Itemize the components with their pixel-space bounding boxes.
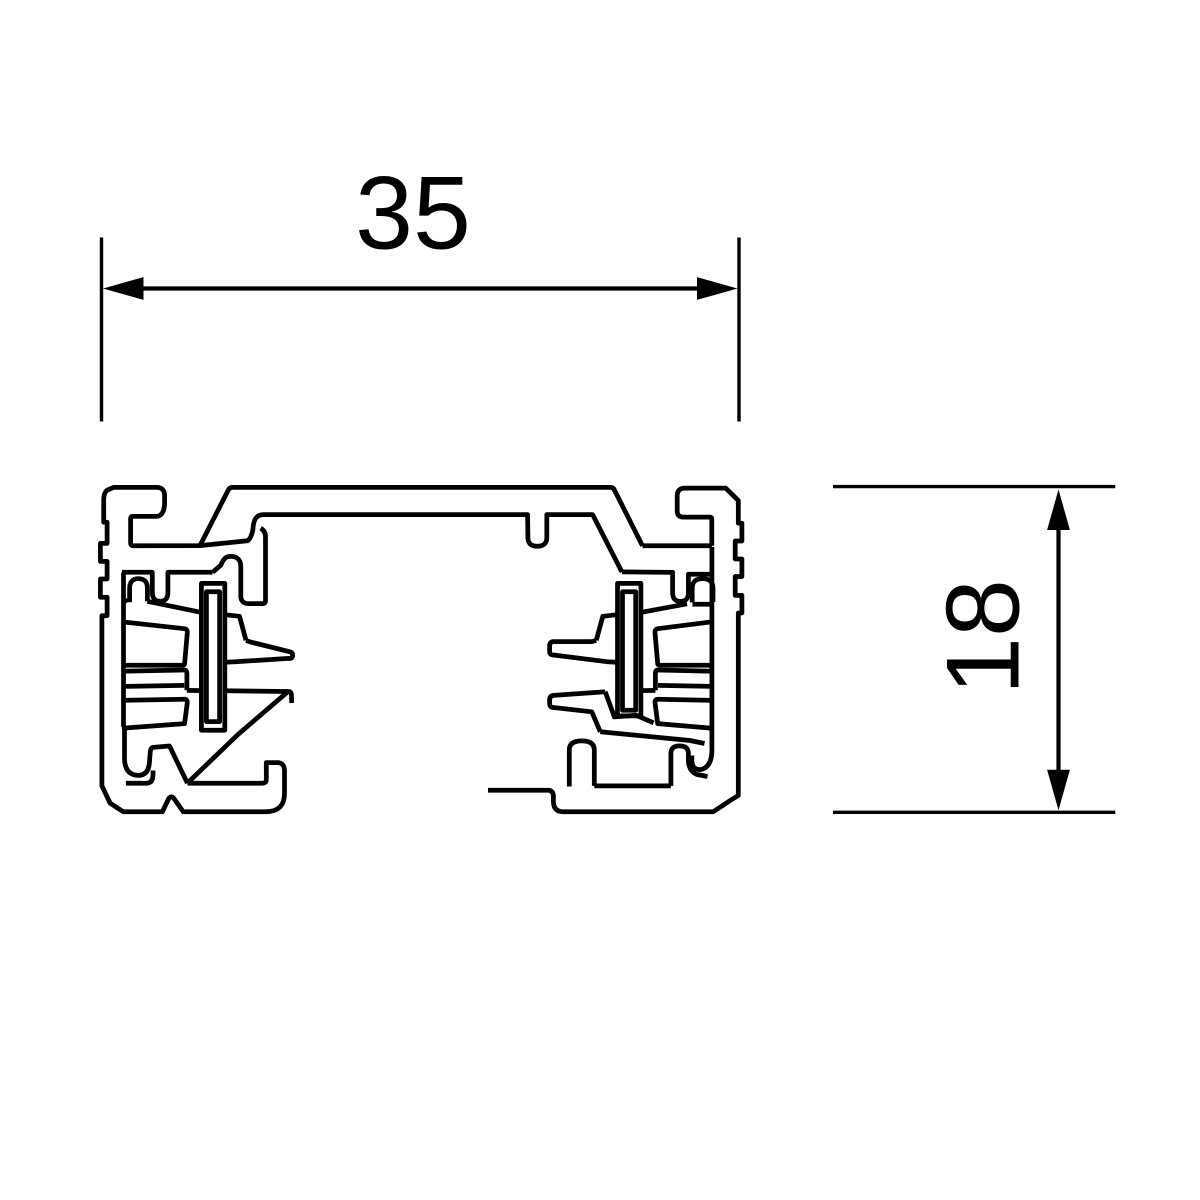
right holder: top edge with pocket U: [622, 572, 712, 602]
dimension 35: dimension line: [140, 286, 700, 290]
profile: left ear slot wall, ledge, inner top surface, hanger tab groove, right diagonal: [131, 515, 622, 572]
right foot arch A: [569, 741, 594, 787]
left conductor slot: [206, 592, 219, 722]
right tongue wedge: [550, 692, 606, 732]
dimension 35: left arrowhead: [103, 277, 144, 300]
profile outer: left ear hook, left wall teeth, bottom with notch, bottom-left lip: [100, 487, 284, 811]
left lower arm: [122, 699, 187, 728]
right finger: [550, 641, 618, 663]
left holder: dome: [124, 579, 148, 603]
right finger root slope: [596, 615, 617, 641]
dimension 18: top arrowhead: [1047, 490, 1070, 531]
left tongue top edge segment: [187, 688, 202, 693]
right conductor slot: [623, 592, 636, 711]
dimension 18: extension line bottom: [833, 811, 1115, 814]
right tongue top edge segment: [641, 688, 656, 693]
svg-text:18: 18: [925, 579, 1041, 695]
right holder: under-dome line: [693, 602, 712, 607]
svg-text:35: 35: [355, 155, 471, 271]
right lower arm: [655, 699, 712, 728]
right holder: top arm bottom sloped edge: [641, 604, 687, 613]
left tongue wedge: [187, 692, 291, 784]
right aluminum bar 2: [655, 670, 712, 690]
left holder: top arm bottom sloped edge: [147, 601, 201, 612]
left aluminum bar 2: [122, 670, 187, 690]
right aluminum shelf 1: [655, 622, 712, 665]
left holder: left wall: [121, 573, 126, 727]
dimension 18: dimension line: [1056, 525, 1060, 775]
left slot tower: [201, 583, 224, 730]
left aluminum shelf 1: [122, 622, 187, 665]
left holder: top edge with pocket U: [122, 572, 213, 601]
right holder: dome: [692, 579, 713, 603]
profile: right wall inner surface with J-hook: [692, 547, 712, 770]
profile: top plate outer (left slope, top edge, right slope): [200, 487, 643, 545]
profile outer: bottom-right lip, bottom edge, chamfer, right wall with teeth, right ear hook: [488, 488, 742, 812]
left holder foot cup and strut: [125, 729, 188, 784]
left aluminum bottom inner segment: [126, 771, 153, 784]
profile: right ledge top: [643, 543, 712, 548]
right slot tower: [618, 583, 641, 716]
dimension 35: extension line right: [737, 238, 740, 422]
right bottom ramp: [600, 732, 704, 744]
dimension 18: extension line top: [833, 485, 1115, 488]
right bottom inner between feet: [594, 784, 671, 789]
dimension 18: bottom arrowhead: [1047, 770, 1070, 811]
dimension 35: extension line left: [100, 238, 103, 422]
left finger: [225, 641, 293, 663]
left holder: hump, pocket bottom, pocket wall: [213, 528, 266, 603]
right foot arch B: [671, 746, 708, 786]
left finger root slope: [225, 615, 246, 641]
dimension 35: right arrowhead: [697, 277, 738, 300]
